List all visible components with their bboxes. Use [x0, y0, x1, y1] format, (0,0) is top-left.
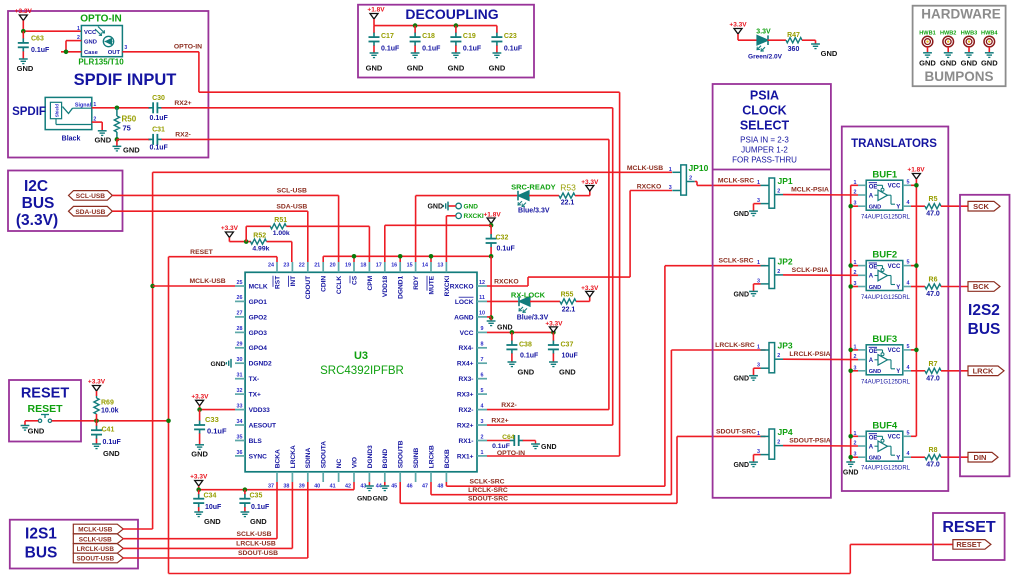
- svg-text:RX2-: RX2-: [501, 402, 517, 409]
- svg-text:VCC: VCC: [888, 348, 901, 354]
- wire +3.3V to LED: [738, 39, 757, 41]
- svg-text:GND: GND: [869, 285, 881, 291]
- svg-text:3: 3: [669, 185, 672, 191]
- svg-text:I2C: I2C: [24, 178, 48, 195]
- pin 41 NC: [338, 472, 340, 482]
- svg-text:10uF: 10uF: [562, 353, 579, 360]
- svg-text:RESET: RESET: [942, 519, 996, 536]
- svg-text:5: 5: [481, 388, 484, 394]
- svg-text:C19: C19: [463, 33, 476, 40]
- svg-text:GND: GND: [981, 59, 998, 68]
- svg-text:GND: GND: [28, 427, 45, 436]
- svg-text:SRC4392IPFBR: SRC4392IPFBR: [320, 365, 404, 377]
- pin 40 SDOUTA: [322, 472, 324, 482]
- svg-text:RXCKO: RXCKO: [494, 278, 519, 285]
- wire BUF2 GND hook: [851, 286, 858, 288]
- pin 31 TX-: [235, 378, 245, 380]
- wire BGND to gnd: [384, 482, 386, 486]
- svg-text:46: 46: [407, 484, 413, 490]
- pin 16 DGND1: [399, 262, 401, 272]
- svg-text:24: 24: [268, 263, 274, 269]
- module box I2S2 BUS: [960, 195, 1010, 477]
- svg-text:VCC: VCC: [888, 435, 901, 441]
- svg-text:C35: C35: [250, 493, 263, 500]
- svg-text:GND: GND: [407, 64, 424, 73]
- svg-text:MCLK: MCLK: [249, 283, 268, 290]
- wire MCLK-USB vertical: [152, 172, 154, 529]
- svg-text:Shield: Shield: [55, 104, 60, 117]
- svg-text:11: 11: [479, 295, 485, 301]
- module box RESET (bottom right): [933, 513, 1005, 560]
- bumpon HWB4: [981, 31, 998, 53]
- wire R51 to CPM: [286, 226, 369, 262]
- svg-text:30: 30: [237, 357, 243, 363]
- svg-text:BUF3: BUF3: [872, 334, 897, 345]
- svg-text:SDOUTB: SDOUTB: [398, 440, 405, 468]
- capacitor C38 0.1uF: [506, 332, 539, 362]
- wire OPTO-IN from opto OUT: [122, 52, 619, 456]
- svg-text:GND: GND: [427, 204, 443, 211]
- svg-text:GPO1: GPO1: [249, 299, 268, 306]
- svg-text:3.3V: 3.3V: [756, 29, 771, 36]
- svg-text:GND: GND: [869, 369, 881, 375]
- svg-text:RX3-: RX3-: [458, 376, 473, 383]
- power +1.8V (VDD18): [484, 211, 502, 225]
- svg-text:LRCKB: LRCKB: [428, 445, 435, 468]
- svg-text:R7: R7: [929, 361, 938, 368]
- svg-text:A: A: [869, 444, 874, 450]
- flag SCL-USB: [69, 191, 113, 201]
- svg-text:A: A: [869, 358, 874, 364]
- node junction gnd: [848, 284, 853, 289]
- svg-text:LRCKA: LRCKA: [290, 445, 297, 468]
- power +1.8V (decoupling): [367, 7, 385, 26]
- power +3.3V (R53): [575, 179, 599, 196]
- wire RXCKO net: [487, 191, 672, 287]
- svg-text:0.1uF: 0.1uF: [150, 144, 169, 151]
- wire RX2+ out: [163, 108, 613, 425]
- svg-text:RESET: RESET: [956, 540, 981, 549]
- svg-text:1.00k: 1.00k: [273, 230, 290, 237]
- buffer BUF1 74AUP1G125DRL: [866, 180, 903, 210]
- svg-text:SDOUT-USB: SDOUT-USB: [238, 550, 278, 557]
- svg-text:0.1uF: 0.1uF: [463, 46, 482, 53]
- pin 45 SDOUTB: [399, 472, 401, 482]
- ground (AGND): [487, 318, 513, 332]
- svg-text:0.1uF: 0.1uF: [381, 46, 400, 53]
- svg-text:RDY: RDY: [413, 275, 420, 290]
- svg-text:SDOUT-SRC: SDOUT-SRC: [468, 496, 508, 503]
- svg-text:GND: GND: [489, 64, 506, 73]
- svg-text:GND: GND: [733, 376, 749, 383]
- svg-text:6: 6: [481, 373, 484, 379]
- svg-text:16: 16: [391, 263, 397, 269]
- pin 11 LOCK: [477, 300, 487, 302]
- flag LRCLK-USB: [73, 544, 123, 554]
- svg-text:I2S2: I2S2: [968, 302, 1000, 319]
- svg-text:MCLK-USB: MCLK-USB: [189, 278, 225, 285]
- wire BUF2 VCC hook: [911, 265, 916, 267]
- svg-text:Blue/3.3V: Blue/3.3V: [517, 315, 549, 322]
- svg-text:LOCK: LOCK: [455, 299, 474, 306]
- svg-text:CS: CS: [351, 275, 358, 285]
- flag SDA-USB: [69, 206, 113, 216]
- svg-text:0.1uF: 0.1uF: [497, 246, 516, 253]
- svg-text:23: 23: [283, 263, 289, 269]
- svg-text:Y: Y: [896, 285, 900, 291]
- svg-text:0.1uF: 0.1uF: [31, 47, 50, 54]
- svg-text:MCLK-PSIA: MCLK-PSIA: [791, 187, 829, 194]
- svg-text:2: 2: [777, 269, 780, 275]
- svg-text:25: 25: [237, 280, 243, 286]
- resistor R51 1.00k: [270, 217, 290, 237]
- wire DGND3 to gnd: [368, 482, 370, 486]
- svg-text:JP4: JP4: [778, 427, 793, 437]
- capacitor C31 0.1uF: [148, 127, 169, 152]
- svg-text:JP1: JP1: [778, 176, 793, 186]
- svg-text:Case: Case: [84, 50, 99, 56]
- svg-text:4: 4: [907, 365, 910, 371]
- svg-text:GND: GND: [518, 368, 535, 377]
- node junction MCLK tap: [150, 284, 155, 289]
- ground (C35): [241, 512, 268, 526]
- svg-text:VCC: VCC: [84, 30, 97, 36]
- svg-text:GND: GND: [733, 211, 749, 218]
- module box I2C BUS: [8, 171, 123, 232]
- pin 3 RX2+: [477, 424, 487, 426]
- svg-text:C38: C38: [519, 342, 532, 349]
- ground (JP1): [733, 211, 757, 218]
- wire SCLK-USB to BCKA: [123, 482, 278, 539]
- svg-text:MCLK-SRC: MCLK-SRC: [718, 177, 754, 184]
- svg-text:BCKA: BCKA: [274, 449, 281, 468]
- svg-text:SDA-USB: SDA-USB: [75, 209, 105, 216]
- svg-text:40: 40: [314, 484, 320, 490]
- svg-text:AGND: AGND: [454, 314, 474, 321]
- capacitor C32 0.1uF: [486, 225, 516, 256]
- svg-text:VDD18: VDD18: [382, 275, 389, 297]
- module box HARDWARE BUMPONS: [913, 6, 1006, 87]
- svg-text:Y: Y: [896, 205, 900, 211]
- ground (C18): [407, 53, 424, 73]
- pin 17 VDD18: [384, 262, 386, 272]
- svg-text:48: 48: [437, 484, 443, 490]
- pin 48 BCKB: [445, 472, 447, 482]
- svg-text:5: 5: [907, 179, 910, 185]
- flag RESET: [953, 540, 991, 550]
- svg-text:13: 13: [437, 263, 443, 269]
- svg-text:2: 2: [777, 353, 780, 359]
- svg-text:GND: GND: [541, 444, 557, 451]
- node junction R50 top: [115, 106, 120, 111]
- svg-text:45: 45: [391, 484, 397, 490]
- ground (testpoint): [427, 202, 448, 211]
- power +3.3V (VDD33): [191, 393, 235, 412]
- wire MCLK tap to pin25: [153, 285, 235, 287]
- svg-text:GND: GND: [464, 203, 479, 210]
- node junction reset vertical: [166, 419, 171, 424]
- svg-text:U3: U3: [354, 350, 368, 362]
- pin 27 GPO2: [235, 316, 245, 318]
- wire RESET to RST pin: [169, 257, 278, 262]
- flag MCLK-USB: [73, 524, 123, 534]
- svg-text:C17: C17: [381, 33, 394, 40]
- svg-text:+3.3V: +3.3V: [221, 225, 239, 232]
- pin 18 CPM: [368, 262, 370, 272]
- pin 47 LRCKB: [430, 472, 432, 482]
- wire SPDIF signal node: [92, 107, 151, 109]
- ground (SPDIF shell): [94, 131, 111, 145]
- ground (HWB3): [961, 53, 978, 68]
- svg-text:RX1+: RX1+: [457, 453, 474, 460]
- svg-text:OPTO-IN: OPTO-IN: [174, 44, 202, 51]
- svg-text:DGND3: DGND3: [367, 445, 374, 468]
- svg-text:OPTO-IN: OPTO-IN: [80, 14, 121, 25]
- svg-text:R6: R6: [929, 277, 938, 284]
- svg-text:R8: R8: [929, 447, 938, 454]
- svg-text:C37: C37: [561, 342, 574, 349]
- wire pullup riser: [245, 226, 247, 241]
- svg-text:BUF2: BUF2: [872, 250, 897, 261]
- svg-text:SYNC: SYNC: [249, 453, 268, 460]
- svg-text:RX-LOCK: RX-LOCK: [511, 290, 546, 299]
- svg-text:74AUP1G125DRL: 74AUP1G125DRL: [861, 466, 911, 472]
- wire JP1 pin3 to gnd: [754, 204, 761, 212]
- wire control tie line: [323, 256, 491, 262]
- svg-text:GPO3: GPO3: [249, 330, 268, 337]
- pin 20 CCLK: [338, 262, 340, 272]
- capacitor C33 0.1uF: [194, 410, 227, 445]
- ground (HWB4): [981, 53, 998, 68]
- wire BUF3 VCC hook: [911, 349, 916, 351]
- LED 3.3V Green/2.0V: [748, 29, 783, 61]
- svg-text:FOR PASS-THRU: FOR PASS-THRU: [732, 156, 797, 165]
- capacitor C35 0.1uF: [239, 490, 270, 512]
- jumper JP10: [681, 165, 687, 195]
- svg-text:SCL-USB: SCL-USB: [76, 193, 106, 200]
- pin 9 VCC: [477, 331, 487, 333]
- node junction vcc: [914, 183, 919, 188]
- svg-text:22: 22: [299, 263, 305, 269]
- node junction gnd: [848, 369, 853, 374]
- svg-text:4: 4: [907, 281, 910, 287]
- module box PSIA CLOCK SELECT: [713, 84, 831, 498]
- svg-text:RXCKI: RXCKI: [464, 213, 484, 220]
- svg-text:0.1uF: 0.1uF: [103, 439, 122, 446]
- resistor R50 75: [114, 108, 136, 140]
- node junction C34: [196, 487, 201, 492]
- svg-text:SPDIF INPUT: SPDIF INPUT: [74, 71, 177, 89]
- svg-text:SDOUT-USB: SDOUT-USB: [76, 556, 114, 563]
- svg-text:R51: R51: [274, 217, 287, 224]
- svg-text:Green/2.0V: Green/2.0V: [748, 54, 783, 61]
- ground (C38): [508, 362, 535, 377]
- flag SDOUT-USB: [73, 553, 123, 563]
- resistor R5 47.0: [911, 196, 968, 218]
- svg-text:OE: OE: [869, 349, 878, 355]
- svg-text:PLR135/T10: PLR135/T10: [78, 58, 124, 67]
- pin 43 DGND3: [368, 472, 370, 482]
- svg-text:15: 15: [407, 263, 413, 269]
- power +3.3V (opto): [15, 8, 33, 31]
- buffer BUF2 74AUP1G125DRL: [866, 261, 903, 291]
- svg-text:0.1uF: 0.1uF: [251, 504, 270, 511]
- pin 46 SDINB: [415, 472, 417, 482]
- svg-text:BCKB: BCKB: [444, 449, 451, 468]
- wire MCLK-USB flag: [123, 528, 153, 530]
- svg-text:R55: R55: [561, 291, 574, 298]
- op-amp U3 body SRC4392IPFBR: [245, 272, 477, 472]
- wire JP3 pin3 to gnd: [754, 368, 761, 376]
- capacitor C37 10uF: [548, 332, 579, 362]
- svg-text:SCLK-USB: SCLK-USB: [236, 531, 271, 538]
- wire RX1- to C64: [487, 440, 505, 442]
- wire VCC rail: [487, 331, 553, 333]
- resistor R52 4.99k: [251, 232, 270, 252]
- svg-text:47: 47: [422, 484, 428, 490]
- power +3.3V (R55): [576, 285, 599, 301]
- svg-text:OUT: OUT: [108, 50, 121, 56]
- svg-text:0.1uF: 0.1uF: [520, 353, 539, 360]
- pin 2 RX1-: [477, 440, 487, 442]
- pin 25 MCLK: [235, 285, 245, 287]
- svg-text:41: 41: [330, 484, 336, 490]
- power +3.3V (R69): [88, 379, 106, 397]
- pin 15 RDY: [415, 262, 417, 272]
- pin 8 RX4-: [477, 347, 487, 349]
- svg-text:LRCK: LRCK: [973, 366, 994, 375]
- svg-text:4: 4: [907, 451, 910, 457]
- wire LRCLK-PSIA: [783, 358, 858, 360]
- resistor R6 47.0: [911, 277, 968, 299]
- svg-text:C34: C34: [204, 493, 217, 500]
- ground (DGND3): [357, 486, 374, 503]
- wire BUF1 OE hook: [851, 184, 858, 186]
- capacitor C34 10uF: [193, 490, 222, 512]
- wire LED to R53: [529, 195, 559, 197]
- svg-text:SDOUT-SRC: SDOUT-SRC: [716, 428, 756, 435]
- svg-text:A: A: [869, 193, 874, 199]
- svg-text:CLOCK: CLOCK: [742, 104, 786, 118]
- pin 34 AESOUT: [235, 424, 245, 426]
- ground (C17): [366, 53, 383, 73]
- svg-text:+3.3V: +3.3V: [88, 379, 106, 386]
- svg-text:RX2+: RX2+: [174, 100, 191, 107]
- pin 36 SYNC: [235, 455, 245, 457]
- pin 38 LRCKA: [291, 472, 293, 482]
- wire BUF3 GND hook: [851, 370, 858, 372]
- wire SDOUT-SRC: [400, 436, 765, 503]
- svg-text:RX1-: RX1-: [458, 438, 473, 445]
- svg-text:SCK: SCK: [973, 202, 989, 211]
- wire C32 to AGND: [490, 256, 492, 317]
- pin 42 VIO: [353, 472, 355, 482]
- svg-text:+3.3V: +3.3V: [729, 22, 747, 29]
- wire pushbutton left to gnd: [25, 421, 38, 426]
- pin 26 GPO1: [235, 300, 245, 302]
- svg-text:CPM: CPM: [367, 275, 374, 290]
- svg-text:SCLK-SRC: SCLK-SRC: [469, 478, 504, 485]
- svg-text:OE: OE: [869, 265, 878, 271]
- capacitor C23 0.1uF: [491, 26, 523, 53]
- svg-text:GND: GND: [17, 64, 34, 73]
- node junction vcc: [914, 263, 919, 268]
- svg-text:SCLK-PSIA: SCLK-PSIA: [792, 267, 829, 274]
- wire JP2 pin3 to gnd: [754, 284, 761, 292]
- wire RX1+ opto: [487, 455, 620, 457]
- svg-text:GND: GND: [448, 64, 465, 73]
- svg-text:NC: NC: [336, 459, 343, 469]
- node junction C35: [243, 487, 248, 492]
- svg-text:42: 42: [345, 484, 351, 490]
- wire LRCLK-USB to LRCKA: [123, 482, 293, 548]
- svg-text:GND: GND: [84, 39, 97, 45]
- svg-text:GND: GND: [821, 49, 838, 58]
- testpoint GND: [448, 203, 478, 210]
- svg-text:+1.8V: +1.8V: [367, 7, 385, 14]
- svg-text:RXCKI: RXCKI: [444, 276, 451, 297]
- pin 23 INT: [291, 262, 293, 272]
- svg-text:GND: GND: [919, 59, 936, 68]
- svg-text:LRCLK-PSIA: LRCLK-PSIA: [789, 351, 830, 358]
- svg-text:BUMPONS: BUMPONS: [924, 69, 993, 84]
- pin 35 BLS: [235, 440, 245, 442]
- svg-text:47.0: 47.0: [926, 291, 940, 298]
- svg-text:10uF: 10uF: [205, 504, 222, 511]
- svg-text:20: 20: [330, 263, 336, 269]
- svg-text:RX3+: RX3+: [457, 392, 474, 399]
- svg-text:LRCLK-SRC: LRCLK-SRC: [715, 342, 755, 349]
- jumper JP1: [769, 178, 775, 208]
- svg-text:0.1uF: 0.1uF: [422, 46, 441, 53]
- ground (C41): [92, 444, 120, 458]
- svg-text:28: 28: [237, 326, 243, 332]
- svg-text:C64: C64: [502, 434, 515, 441]
- wire SDOUT-PSIA: [783, 445, 858, 447]
- wire +3.3V to opto VCC: [23, 30, 81, 32]
- svg-text:C41: C41: [102, 427, 115, 434]
- svg-text:JP3: JP3: [778, 341, 793, 351]
- connector SPDIF jack: [45, 97, 96, 129]
- svg-text:DGND1: DGND1: [398, 275, 405, 298]
- wire BUF4 OE hook: [851, 435, 858, 437]
- ground (HWB2): [940, 53, 957, 68]
- svg-text:BUS: BUS: [25, 545, 58, 562]
- svg-text:14: 14: [422, 263, 428, 269]
- svg-text:GND: GND: [869, 205, 881, 211]
- svg-text:19: 19: [345, 263, 351, 269]
- svg-text:R52: R52: [253, 232, 266, 239]
- svg-text:C30: C30: [152, 95, 165, 102]
- pin 24 RST: [276, 262, 278, 272]
- ground (C33): [191, 445, 208, 459]
- jumper JP4: [769, 429, 775, 459]
- pin 30 DGND2: [235, 362, 245, 364]
- svg-text:INT: INT: [290, 276, 297, 287]
- node junction gnd: [848, 204, 853, 209]
- svg-text:1: 1: [757, 431, 760, 437]
- svg-text:R5: R5: [929, 196, 938, 203]
- ground (JP3): [733, 376, 757, 383]
- svg-text:34: 34: [237, 419, 243, 425]
- module box DECOUPLING: [358, 5, 534, 78]
- svg-text:74AUP1G125DRL: 74AUP1G125DRL: [861, 215, 911, 221]
- ground (C23): [489, 53, 506, 73]
- LED SRC-READY Blue/3.3V: [511, 183, 556, 215]
- svg-text:VCC: VCC: [460, 330, 474, 337]
- ground (pushbutton): [21, 426, 45, 436]
- bumpon HWB3: [961, 31, 977, 53]
